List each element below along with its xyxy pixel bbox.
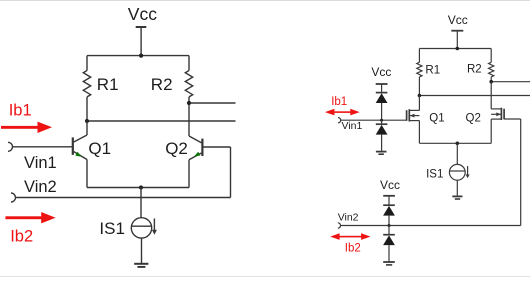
svg-text:R1: R1 xyxy=(97,75,119,94)
wire R1 bottom lead xyxy=(418,77,420,96)
svg-text:Vin1: Vin1 xyxy=(342,120,363,132)
arrow Ib2 double-headed (red) xyxy=(330,233,370,240)
diode D2 xyxy=(376,120,388,134)
wire Vcc stem xyxy=(456,31,458,49)
Q1 emitter arrow (green) xyxy=(75,152,81,157)
wire Q2 gate riser xyxy=(520,119,522,226)
wire R2 top lead xyxy=(490,49,492,63)
transistor Q2 xyxy=(189,136,231,188)
wire output line upper xyxy=(189,102,236,104)
ground IS1 (right) xyxy=(452,196,462,199)
IS1 arrow head xyxy=(152,230,157,235)
bottom border line xyxy=(0,276,530,278)
svg-text:Q2: Q2 xyxy=(165,139,188,158)
node R1/Q1 collector junction xyxy=(85,119,89,123)
current source IS1 xyxy=(131,218,154,238)
wire IS1 top lead (right) xyxy=(456,143,458,164)
wire R2 bottom lead xyxy=(490,77,492,82)
wire emitter bus xyxy=(87,187,189,189)
node Vin2/diode junction xyxy=(388,224,391,227)
wire IS1 bottom lead xyxy=(141,238,143,263)
wire Q2 base drop xyxy=(230,147,232,198)
svg-text:Vcc: Vcc xyxy=(380,178,400,192)
wire Vcc stem xyxy=(140,27,142,56)
svg-text:Vcc: Vcc xyxy=(448,13,468,27)
node Vcc junction xyxy=(139,54,143,58)
arrow Ib1 double-headed (red) xyxy=(325,109,360,116)
wire output line lower (right) xyxy=(419,95,530,97)
wire R2 top lead xyxy=(188,56,190,71)
IS1 arrow head (right) xyxy=(466,174,470,178)
wire D4 to ground xyxy=(388,245,390,261)
wire Q2 collector riser xyxy=(188,103,190,136)
wire R1 top lead xyxy=(418,49,420,63)
resistor R1 (right) xyxy=(417,62,422,77)
wire Vin1 to Q1 base xyxy=(13,146,73,148)
svg-text:Ib1: Ib1 xyxy=(9,102,32,120)
top border line xyxy=(0,0,530,2)
diode D3 xyxy=(383,205,395,215)
wire R1 top lead xyxy=(86,56,88,71)
node Vin1/diode junction xyxy=(380,119,383,122)
resistor R2 xyxy=(185,71,192,97)
node R1/Q1 drain junction xyxy=(418,94,422,98)
svg-text:Vcc: Vcc xyxy=(128,4,157,24)
diode D4 xyxy=(383,226,395,246)
wire D1 to Vin1 node xyxy=(381,103,383,120)
power Vcc terminal bar xyxy=(136,26,147,28)
wire R2 bottom lead xyxy=(188,97,190,103)
resistor R2 (right) xyxy=(489,62,494,77)
svg-text:IS1: IS1 xyxy=(99,219,125,238)
Q2 emitter arrow (green) xyxy=(194,152,200,157)
svg-text:Ib2: Ib2 xyxy=(345,243,361,255)
wire D3 to Vin2 node xyxy=(388,216,390,226)
diode D1 xyxy=(376,93,388,103)
svg-text:R1: R1 xyxy=(425,64,440,76)
wire Vcc to D3 xyxy=(388,196,390,205)
transistor Q1 xyxy=(73,121,87,188)
resistor R1 xyxy=(83,71,90,97)
svg-text:Q1: Q1 xyxy=(88,139,111,158)
ground (left) xyxy=(134,264,148,267)
wire R1 bottom lead xyxy=(86,97,88,121)
wire output line lower xyxy=(87,120,236,122)
svg-text:Vin2: Vin2 xyxy=(24,178,57,196)
Q2 body arrow xyxy=(496,112,501,116)
power Vcc terminal bar (mid) xyxy=(376,83,388,85)
wire top rail xyxy=(87,55,189,57)
node Vcc junction (right) xyxy=(456,47,460,51)
transistor Q2 (NMOS, mirrored) xyxy=(491,82,521,144)
terminal Vin1 (right) xyxy=(338,118,341,123)
power Vcc terminal bar (top) xyxy=(451,30,463,32)
terminal Vin2 (right) xyxy=(338,223,341,228)
wire IS1 bottom lead (right) xyxy=(456,180,458,196)
svg-text:IS1: IS1 xyxy=(426,168,443,180)
node R2/Q2 drain junction xyxy=(489,80,493,84)
svg-text:Q1: Q1 xyxy=(429,113,444,125)
svg-text:Ib1: Ib1 xyxy=(331,96,347,108)
svg-text:R2: R2 xyxy=(151,75,173,94)
svg-text:Q2: Q2 xyxy=(466,113,481,125)
power Vcc terminal bar (bottom) xyxy=(383,195,395,197)
terminal Vin2 input xyxy=(11,193,16,202)
current source IS1 (right) xyxy=(449,164,467,180)
ground D2 (right) xyxy=(376,152,387,155)
wire D2 to ground xyxy=(381,135,383,151)
wire source bus (right) xyxy=(419,142,491,144)
svg-text:Vin1: Vin1 xyxy=(24,154,57,172)
wire Vin2 line (right) xyxy=(341,225,521,227)
arrow Ib1 current (red) xyxy=(1,122,52,133)
Q1 body arrow xyxy=(410,114,415,118)
ground D4 (right) xyxy=(383,262,395,265)
svg-text:Vcc: Vcc xyxy=(371,65,391,79)
svg-text:Vin2: Vin2 xyxy=(338,212,359,224)
node emitter junction xyxy=(139,185,143,189)
arrow Ib2 current (red) xyxy=(5,212,55,223)
wire top rail xyxy=(419,48,491,50)
svg-text:Ib2: Ib2 xyxy=(10,227,33,245)
wire output line upper (right) xyxy=(491,81,530,83)
transistor Q1 (NMOS) xyxy=(407,96,420,144)
terminal Vin1 input xyxy=(8,142,13,151)
wire IS1 top lead xyxy=(140,188,142,218)
node source junction (right) xyxy=(456,142,460,146)
wire Vcc to D1 xyxy=(381,84,383,93)
wire Vin2 line xyxy=(16,197,231,199)
wire Vin1 to Q1 gate xyxy=(341,119,407,121)
svg-text:R2: R2 xyxy=(467,64,482,76)
node R2/Q2 collector junction xyxy=(187,101,191,105)
